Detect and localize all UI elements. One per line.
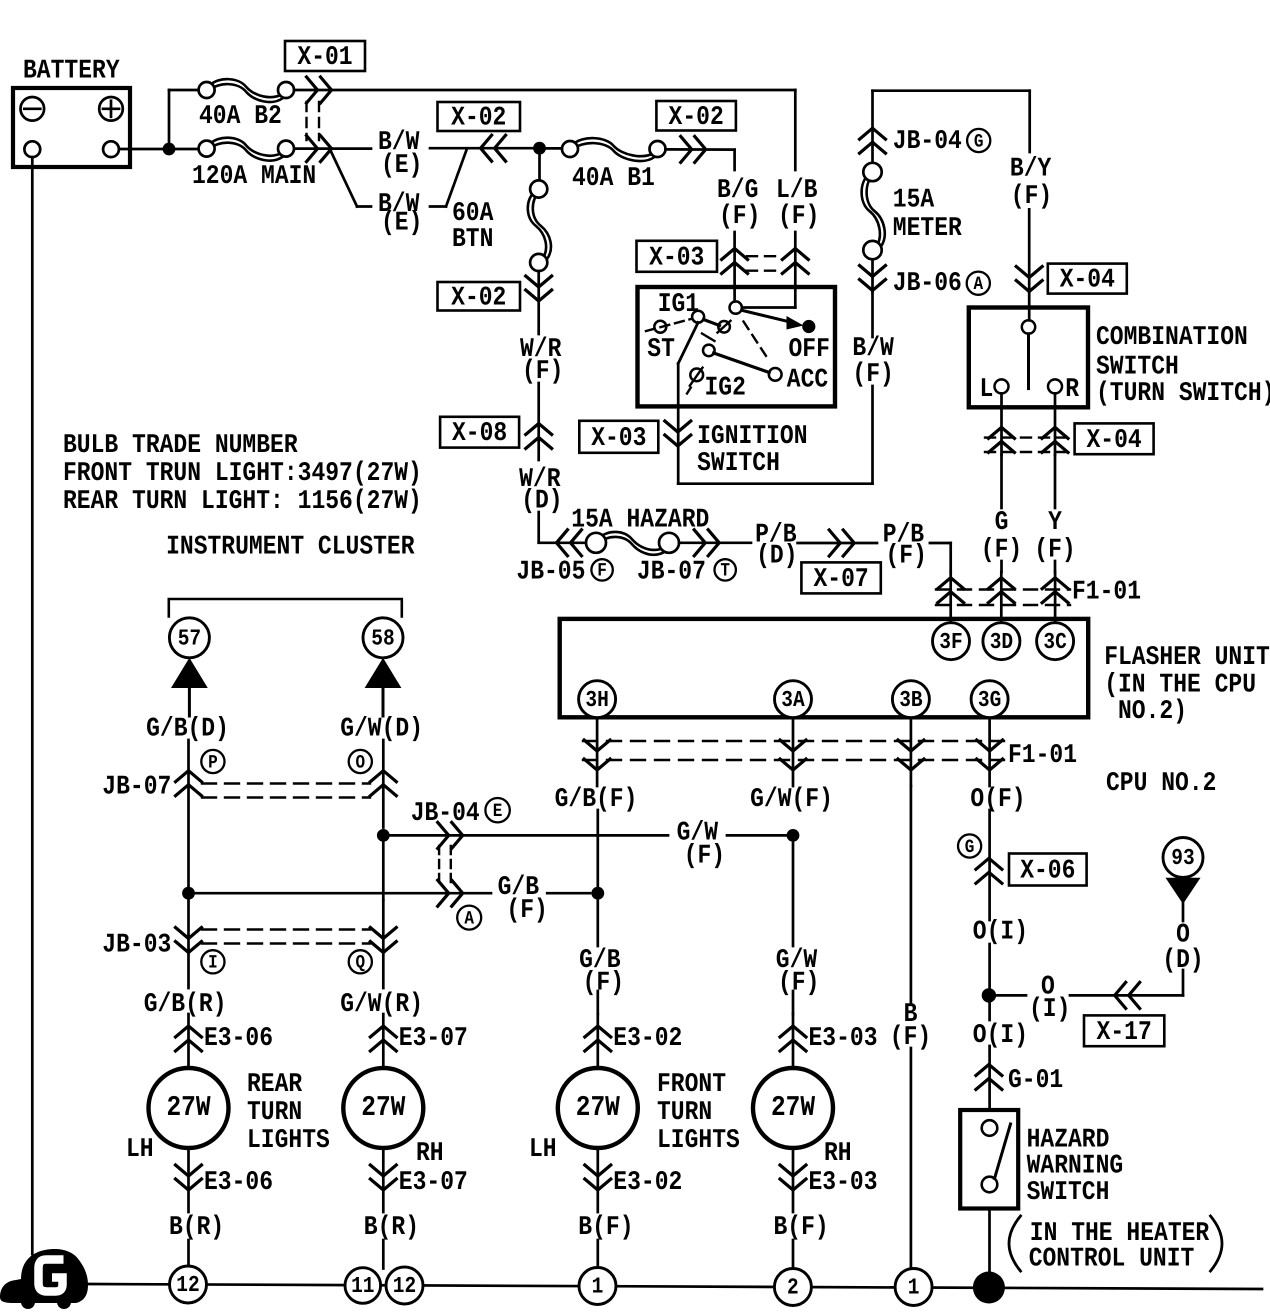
svg-text:X-17: X-17 [1097, 1017, 1152, 1047]
svg-text:15A HAZARD: 15A HAZARD [571, 504, 709, 534]
svg-text:(F): (F) [886, 540, 927, 570]
svg-text:CONTROL UNIT: CONTROL UNIT [1029, 1243, 1195, 1273]
svg-text:G/W(D): G/W(D) [340, 713, 423, 743]
svg-text:X-07: X-07 [813, 564, 868, 594]
svg-text:B(R): B(R) [364, 1212, 419, 1242]
svg-text:JB-07: JB-07 [102, 771, 171, 801]
svg-text:(F): (F) [778, 967, 819, 997]
svg-text:G: G [965, 837, 975, 858]
svg-text:G/B(D): G/B(D) [146, 713, 229, 743]
svg-text:G/B(R): G/B(R) [144, 989, 227, 1019]
svg-text:E3-06: E3-06 [204, 1023, 273, 1053]
svg-text:P: P [208, 752, 218, 773]
svg-text:40A B2: 40A B2 [199, 101, 282, 131]
svg-text:27W: 27W [771, 1093, 815, 1125]
svg-text:3D: 3D [990, 629, 1013, 655]
svg-text:JB-04: JB-04 [411, 798, 480, 828]
svg-text:12: 12 [176, 1272, 199, 1298]
svg-text:(F): (F) [506, 895, 547, 925]
svg-text:JB-03: JB-03 [102, 929, 171, 959]
svg-text:X-03: X-03 [649, 242, 704, 272]
svg-text:3C: 3C [1043, 629, 1067, 655]
svg-text:E3-03: E3-03 [809, 1023, 878, 1053]
svg-text:LIGHTS: LIGHTS [657, 1125, 740, 1155]
svg-text:3F: 3F [939, 629, 962, 655]
svg-text:FRONT TRUN LIGHT:3497(27W): FRONT TRUN LIGHT:3497(27W) [63, 458, 422, 488]
svg-text:(F): (F) [684, 840, 725, 870]
svg-text:(I): (I) [1029, 994, 1070, 1024]
svg-text:27W: 27W [166, 1093, 210, 1125]
svg-text:(F): (F) [852, 359, 893, 389]
svg-text:(F): (F) [778, 201, 819, 231]
svg-text:FLASHER UNIT: FLASHER UNIT [1104, 642, 1270, 672]
svg-text:SWITCH: SWITCH [1027, 1177, 1110, 1207]
svg-text:2: 2 [787, 1275, 799, 1301]
svg-text:JB-07: JB-07 [637, 556, 706, 586]
svg-text:G: G [974, 131, 984, 152]
svg-text:F: F [597, 560, 607, 581]
svg-text:X-02: X-02 [669, 102, 724, 132]
svg-text:(D): (D) [521, 485, 562, 515]
svg-text:REAR: REAR [247, 1069, 302, 1099]
svg-text:15A: 15A [893, 184, 935, 214]
svg-text:1: 1 [908, 1275, 920, 1301]
svg-text:1: 1 [592, 1274, 604, 1300]
svg-text:G/B(F): G/B(F) [555, 784, 638, 814]
svg-text:G: G [995, 507, 1009, 537]
svg-text:IGNITION: IGNITION [697, 421, 807, 451]
svg-text:G-01: G-01 [1008, 1065, 1063, 1095]
svg-text:METER: METER [893, 213, 962, 243]
svg-text:REAR TURN LIGHT: 1156(27W): REAR TURN LIGHT: 1156(27W) [63, 486, 422, 516]
svg-text:O: O [355, 752, 365, 773]
svg-text:JB-06: JB-06 [893, 268, 962, 298]
svg-text:(D): (D) [1162, 945, 1203, 975]
svg-text:I: I [208, 952, 218, 973]
svg-text:X-03: X-03 [591, 423, 646, 453]
svg-text:B/Y: B/Y [1010, 153, 1052, 183]
svg-text:27W: 27W [361, 1093, 405, 1125]
svg-text:X-01: X-01 [297, 42, 352, 72]
svg-text:B(R): B(R) [169, 1212, 224, 1242]
svg-text:IG1: IG1 [658, 289, 699, 319]
svg-text:(TURN SWITCH): (TURN SWITCH) [1096, 378, 1270, 408]
svg-text:RH: RH [416, 1138, 444, 1168]
svg-text:BULB TRADE NUMBER: BULB TRADE NUMBER [63, 430, 298, 460]
svg-text:CPU NO.2: CPU NO.2 [1106, 768, 1216, 798]
svg-text:(F): (F) [522, 356, 563, 386]
svg-text:LH: LH [126, 1134, 154, 1164]
svg-text:X-04: X-04 [1060, 264, 1115, 294]
svg-text:G/W(R): G/W(R) [340, 989, 423, 1019]
svg-text:E3-07: E3-07 [399, 1023, 468, 1053]
svg-text:JB-04: JB-04 [893, 126, 962, 156]
svg-text:Y: Y [1048, 507, 1062, 537]
svg-text:40A B1: 40A B1 [572, 163, 655, 193]
svg-text:O(I): O(I) [973, 916, 1028, 946]
svg-text:(F): (F) [1034, 534, 1075, 564]
svg-text:LH: LH [529, 1134, 557, 1164]
svg-text:E3-07: E3-07 [399, 1167, 468, 1197]
svg-text:F1-01: F1-01 [1072, 576, 1141, 606]
svg-text:(F): (F) [583, 967, 624, 997]
svg-text:12: 12 [393, 1273, 416, 1299]
svg-text:120A MAIN: 120A MAIN [192, 161, 316, 191]
svg-text:BTN: BTN [452, 224, 493, 254]
svg-text:G/W(F): G/W(F) [750, 784, 833, 814]
svg-text:11: 11 [351, 1273, 374, 1299]
svg-text:NO.2): NO.2) [1118, 696, 1187, 726]
svg-text:E3-02: E3-02 [613, 1167, 682, 1197]
svg-text:L: L [980, 374, 994, 404]
svg-text:X-04: X-04 [1086, 425, 1141, 455]
svg-text:3H: 3H [585, 687, 608, 713]
svg-text:T: T [720, 560, 730, 581]
svg-text:E: E [493, 801, 503, 822]
svg-text:3B: 3B [899, 687, 923, 713]
svg-text:TURN: TURN [657, 1097, 712, 1127]
svg-text:(E): (E) [381, 150, 422, 180]
svg-text:F1-01: F1-01 [1008, 740, 1077, 770]
svg-text:E3-02: E3-02 [613, 1023, 682, 1053]
svg-text:E3-06: E3-06 [204, 1167, 273, 1197]
svg-text:ST: ST [647, 334, 675, 364]
svg-text:Q: Q [355, 952, 365, 973]
svg-text:93: 93 [1171, 845, 1194, 871]
svg-text:(D): (D) [756, 540, 797, 570]
svg-text:LIGHTS: LIGHTS [247, 1125, 330, 1155]
svg-text:R: R [1065, 374, 1079, 404]
svg-text:X-02: X-02 [451, 282, 506, 312]
svg-text:3A: 3A [781, 687, 805, 713]
svg-text:COMBINATION: COMBINATION [1096, 322, 1248, 352]
svg-text:58: 58 [371, 626, 394, 652]
svg-text:RH: RH [824, 1138, 852, 1168]
svg-text:INSTRUMENT CLUSTER: INSTRUMENT CLUSTER [166, 531, 415, 561]
svg-text:FRONT: FRONT [657, 1069, 726, 1099]
svg-text:B(F): B(F) [774, 1212, 829, 1242]
svg-text:A: A [464, 908, 474, 929]
svg-text:SWITCH: SWITCH [697, 448, 780, 478]
svg-text:JB-05: JB-05 [516, 556, 585, 586]
svg-text:O(I): O(I) [973, 1020, 1028, 1050]
svg-text:A: A [973, 274, 983, 295]
svg-text:57: 57 [178, 626, 201, 652]
svg-text:(E): (E) [381, 207, 422, 237]
svg-text:X-02: X-02 [451, 102, 506, 132]
svg-text:TURN: TURN [247, 1097, 302, 1127]
svg-text:O(F): O(F) [970, 784, 1025, 814]
svg-text:(F): (F) [890, 1022, 931, 1052]
svg-text:(F): (F) [1011, 181, 1052, 211]
svg-text:IG2: IG2 [705, 372, 746, 402]
svg-text:X-08: X-08 [452, 418, 507, 448]
svg-text:(F): (F) [719, 201, 760, 231]
svg-text:3G: 3G [978, 687, 1001, 713]
svg-text:E3-03: E3-03 [809, 1167, 878, 1197]
svg-text:(F): (F) [981, 534, 1022, 564]
svg-text:ACC: ACC [787, 364, 829, 394]
svg-text:B(F): B(F) [578, 1212, 633, 1242]
svg-text:X-06: X-06 [1020, 855, 1075, 885]
svg-text:BATTERY: BATTERY [23, 55, 120, 85]
svg-text:OFF: OFF [789, 334, 830, 364]
svg-text:27W: 27W [576, 1093, 620, 1125]
